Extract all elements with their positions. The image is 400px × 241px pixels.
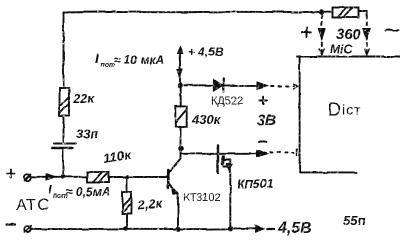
wire dashed left meter lead	[318, 15, 325, 55]
transistor Q1 KT3102	[168, 159, 181, 194]
wire diode to arrow	[224, 82, 268, 89]
svg-text:22к: 22к	[72, 91, 95, 106]
wire dashed right meter lead	[363, 15, 370, 55]
label 3V	[257, 112, 276, 129]
label 430k	[191, 112, 222, 127]
label 360	[336, 26, 362, 43]
svg-text:КД522: КД522	[211, 95, 243, 107]
label 2.2k	[136, 195, 164, 213]
svg-text:3В: 3В	[257, 112, 276, 129]
node collector/430k junction	[178, 146, 184, 152]
node junction 360 top	[318, 9, 323, 14]
label Ipot 0.5mA	[48, 182, 110, 200]
svg-text:пот: пот	[100, 62, 115, 69]
node 2.2k bottom	[123, 226, 128, 231]
svg-text:≈ 0,5мА: ≈ 0,5мА	[66, 185, 110, 199]
label 22k	[72, 91, 95, 106]
node emitter bottom	[175, 226, 180, 231]
transistor Q2 KP501 mosfet	[218, 146, 233, 174]
svg-text:МіС: МіС	[330, 42, 352, 56]
capacitor C1 33n	[52, 144, 76, 149]
label KT3102	[183, 192, 221, 204]
resistor R3 2.2k	[123, 192, 132, 214]
node tick at block edge top	[294, 84, 298, 90]
bottom minus terminal	[6, 225, 31, 233]
svg-text:КП501: КП501	[237, 177, 273, 191]
resistor R1 22k	[60, 88, 70, 116]
label plus at 3V	[259, 97, 267, 105]
svg-text:4,5В: 4,5В	[277, 220, 312, 237]
svg-text:I: I	[48, 182, 52, 197]
svg-text:55п: 55п	[343, 213, 365, 228]
svg-text:≈ 10 мкА: ≈ 10 мкА	[114, 53, 164, 67]
block DICT outline	[297, 57, 400, 173]
svg-text:+ 4,5В: + 4,5В	[188, 45, 224, 59]
label MIC	[330, 42, 352, 56]
wire node to 430k	[180, 127, 182, 149]
wire left vertical down to 22k	[63, 13, 65, 89]
label plus meter	[302, 28, 311, 37]
label KD522	[211, 95, 243, 107]
wire 22k to capacitor	[63, 116, 65, 143]
wire node up to +4.5V terminal with down arrow	[177, 52, 182, 86]
label minus at 3V	[259, 140, 266, 143]
label 110k	[102, 147, 133, 166]
node mosfet bottom	[228, 226, 233, 231]
label -4.5V	[267, 228, 274, 230]
wire capacitor to input line	[62, 150, 64, 177]
label KP501	[237, 177, 273, 191]
svg-text:360: 360	[336, 26, 362, 43]
diode VD1 KD522	[214, 79, 224, 92]
wire top bus from left corner to 360 resistor	[64, 11, 322, 14]
svg-text:2,2к: 2,2к	[136, 195, 164, 213]
wire collector node to mosfet gate	[181, 153, 256, 155]
resistor R2 110k	[88, 172, 109, 183]
svg-text:КТ3102: КТ3102	[183, 192, 221, 204]
wire collector up to node	[180, 149, 182, 159]
svg-text:АТС: АТС	[16, 197, 50, 214]
label 55p page mark	[343, 213, 365, 228]
resistor R4 430k	[175, 106, 186, 127]
wire emitter to bottom bus	[177, 193, 179, 229]
resistor R5 360	[321, 8, 367, 18]
node junction base/2.2k	[125, 175, 129, 179]
label ATC	[16, 197, 50, 214]
label Dict	[328, 100, 362, 120]
wire 430k to diode node	[180, 86, 182, 107]
svg-text:430к: 430к	[191, 112, 222, 127]
label Ipot 10uA	[95, 50, 164, 69]
arrow on drain line	[257, 150, 268, 157]
label 33n	[76, 126, 98, 141]
wire node to diode	[182, 84, 214, 86]
input plus terminal	[7, 170, 31, 181]
wire dashed diode line into block	[271, 85, 294, 87]
node junction cap/input	[61, 174, 65, 178]
node diode junction	[177, 83, 182, 88]
wire down to 2.2k	[126, 177, 128, 192]
wire bottom bus	[31, 226, 264, 233]
wire 2.2k to bottom bus	[126, 214, 128, 229]
svg-text:Dіст: Dіст	[328, 100, 362, 120]
power terminal +4.5V arrow up	[177, 47, 183, 60]
label +4.5V	[188, 45, 224, 59]
svg-text:33п: 33п	[76, 126, 98, 141]
wire 110k to base	[109, 176, 167, 178]
wire mosfet source to bottom bus	[229, 160, 231, 229]
wire dashed drain line into block	[270, 149, 297, 156]
wire input line to 110k	[31, 174, 88, 180]
label minus meter	[385, 30, 399, 31]
